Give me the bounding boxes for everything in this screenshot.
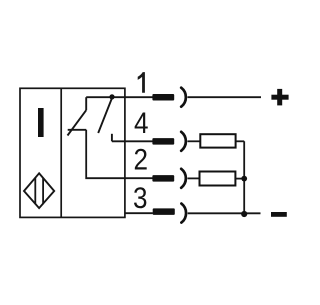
sensor body outline U1 bbox=[20, 88, 125, 217]
junction dot on line 1 bbox=[109, 94, 114, 99]
connector pin bar 1 bbox=[152, 94, 174, 101]
active face plate bbox=[38, 108, 44, 137]
sensor body divider bbox=[60, 88, 62, 217]
plus sign bbox=[271, 89, 288, 106]
wire: pin 4 line bbox=[112, 140, 153, 142]
pin label 3 bbox=[133, 181, 148, 214]
wire: connector 2 to load bbox=[188, 177, 200, 179]
wire: resistor 2 to bus bbox=[235, 178, 242, 180]
rhombus inner oscillator lines bbox=[35, 178, 43, 205]
connector socket arc 1 bbox=[181, 88, 186, 107]
connector socket arc 4 bbox=[181, 132, 186, 151]
wire: pin 1 line bbox=[86, 96, 153, 98]
junction dot bus/line3 bbox=[241, 211, 247, 217]
pin label 1 bbox=[138, 72, 145, 93]
connector pin bar 4 bbox=[152, 138, 174, 145]
wire: resistor 4 to bus bbox=[236, 140, 245, 142]
connector socket arc 2 bbox=[181, 169, 186, 188]
wire: connector 3 to minus bbox=[188, 212, 261, 214]
wire: connector 1 to plus bbox=[188, 96, 262, 98]
wire: NC contact down to pin 2 line bbox=[86, 130, 153, 178]
svg-text:3: 3 bbox=[133, 181, 148, 214]
svg-text:2: 2 bbox=[134, 143, 149, 176]
load resistor on pin 2 bbox=[200, 172, 236, 186]
junction dot bus/line2 bbox=[241, 176, 247, 182]
load resistor on pin 4 bbox=[200, 134, 235, 147]
inductive sensor symbol (rhombus) bbox=[24, 173, 54, 208]
pin label 4 bbox=[134, 106, 149, 139]
connector pin bar 3 bbox=[153, 208, 175, 215]
bus wire down to minus rail bbox=[243, 141, 245, 214]
NC fixed contact bar bbox=[68, 129, 87, 131]
wire: connector 4 to load bbox=[188, 140, 201, 142]
wire: pin 3 line bbox=[125, 212, 153, 214]
NO contact arm bbox=[98, 98, 112, 133]
pin label 2 bbox=[134, 143, 149, 176]
NC contact arm bbox=[68, 110, 87, 135]
connector socket arc 3 bbox=[181, 204, 186, 223]
svg-text:4: 4 bbox=[134, 106, 149, 139]
connector pin bar 2 bbox=[152, 175, 174, 182]
NC contact stub from line 1 bbox=[85, 97, 87, 110]
NO contact terminal stub bbox=[111, 134, 113, 142]
minus sign bbox=[271, 212, 287, 217]
